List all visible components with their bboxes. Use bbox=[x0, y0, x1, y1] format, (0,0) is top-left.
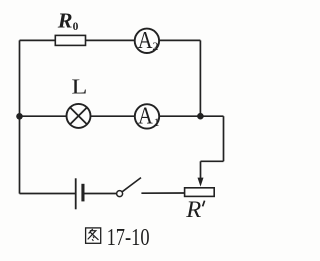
battery long plate (positive) bbox=[75, 178, 77, 209]
lamp L cross stroke 1 bbox=[70, 108, 87, 125]
svg-text:A: A bbox=[138, 103, 153, 129]
rheostat slider arrowhead bbox=[198, 178, 204, 187]
switch lever (open) bbox=[122, 178, 141, 192]
label R' bbox=[185, 197, 204, 222]
resistor R0 bbox=[55, 35, 85, 45]
wire ammeter A1 to right node and on to right edge bbox=[159, 115, 223, 117]
wire left vertical bbox=[19, 40, 21, 193]
lamp L cross stroke 2 bbox=[70, 108, 87, 125]
svg-text:0: 0 bbox=[73, 21, 79, 33]
wire right vertical (top branch down to node) bbox=[199, 40, 201, 116]
wire top from left corner to resistor R0 bbox=[20, 39, 56, 41]
wire middle from left node to lamp L bbox=[20, 115, 67, 117]
wire slider stem down to arrow bbox=[200, 161, 202, 179]
node junction dot right bbox=[197, 113, 204, 120]
svg-text:A: A bbox=[138, 28, 153, 54]
rheostat R' body bbox=[185, 188, 215, 197]
label A1 bbox=[138, 103, 160, 129]
wire right-edge vertical down to jog bbox=[223, 116, 225, 161]
lamp L circle bbox=[67, 104, 91, 128]
label A2 bbox=[138, 28, 159, 54]
wire bottom from left corner to battery bbox=[20, 193, 76, 195]
svg-text:L: L bbox=[71, 74, 87, 98]
battery short plate (negative) bbox=[81, 184, 84, 202]
svg-text:1: 1 bbox=[154, 115, 160, 129]
node junction dot left bbox=[16, 113, 23, 120]
wire battery to switch bbox=[84, 193, 116, 195]
ammeter A1 circle bbox=[135, 104, 159, 128]
svg-text:17-10: 17-10 bbox=[107, 224, 150, 251]
wire lamp L to ammeter A1 bbox=[90, 115, 134, 117]
svg-text:R: R bbox=[185, 197, 201, 222]
wire jog left toward rheostat slider bbox=[201, 160, 224, 162]
svg-text:2: 2 bbox=[152, 39, 158, 53]
wire switch to rheostat R' bbox=[141, 192, 184, 194]
label R0 bbox=[57, 8, 79, 33]
wire ammeter A2 to top-right corner bbox=[159, 39, 200, 41]
ammeter A2 circle bbox=[135, 29, 159, 53]
svg-text:R: R bbox=[57, 8, 73, 32]
wire resistor R0 to ammeter A2 bbox=[86, 39, 135, 41]
switch pivot circle bbox=[117, 191, 123, 197]
caption character tu (drawn) bbox=[86, 228, 101, 243]
